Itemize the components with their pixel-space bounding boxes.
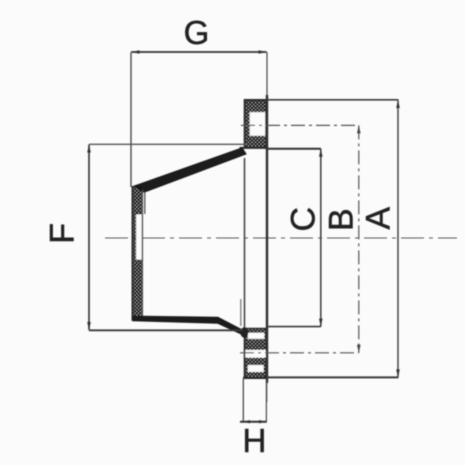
bolt circle line B top <box>241 124 359 126</box>
dimension line G <box>131 51 267 53</box>
bore inner faint line <box>240 299 242 326</box>
bolt circle line B bottom <box>240 352 359 354</box>
center hole left edge <box>135 214 137 261</box>
dimension line C <box>320 149 322 327</box>
dimension line F <box>88 145 90 331</box>
centerline <box>105 237 457 239</box>
center hole bottom edge <box>135 259 143 261</box>
extension line F top <box>89 143 246 145</box>
flange bottom-left edge <box>244 328 246 378</box>
flange ring top section (hatched) <box>244 100 267 148</box>
flange ring bottom section (hatched) <box>244 328 267 378</box>
dimension line B <box>358 125 360 352</box>
svg-text:B: B <box>323 208 361 231</box>
dimension line H <box>240 421 267 423</box>
flange top-left edge <box>244 100 246 148</box>
svg-text:G: G <box>184 14 210 51</box>
collar inner face line <box>142 190 144 317</box>
extension line A top <box>267 99 398 101</box>
bolt hole bottom upper white <box>248 333 264 339</box>
flange bottom edge <box>243 377 267 379</box>
center hole gap <box>136 214 143 261</box>
flange face line thick <box>266 95 268 383</box>
extension line C bottom <box>267 326 321 328</box>
svg-text:H: H <box>242 422 266 459</box>
collar to flange junction blob <box>240 327 248 337</box>
flange face line upper thin <box>266 52 268 99</box>
extension line A bottom <box>267 376 398 378</box>
collar end wall (hatched column) <box>132 186 142 321</box>
center hole right edge <box>141 214 143 261</box>
extension line C top <box>267 148 321 150</box>
collar outer face line <box>131 186 133 320</box>
arrow B top <box>357 125 361 133</box>
arrow F top <box>87 145 91 153</box>
bolt hole top <box>250 112 266 136</box>
arrow H left <box>243 420 250 423</box>
flange top section bottom edge <box>240 147 268 149</box>
arrow G left <box>132 50 140 54</box>
center hole top edge <box>135 213 143 215</box>
arrow A top <box>396 100 400 108</box>
svg-text:F: F <box>44 223 82 244</box>
arrow A bottom <box>396 369 400 377</box>
dimension line A <box>397 100 399 378</box>
inner bend edge <box>144 192 146 215</box>
flange face line lower thin <box>266 383 268 402</box>
arrow G right <box>259 50 267 54</box>
collar bottom band <box>132 316 247 338</box>
svg-text:C: C <box>285 207 323 232</box>
extension line G left <box>130 53 132 188</box>
bolt hole bottom middle white band <box>244 350 266 358</box>
flange bottom section top edge <box>244 328 267 330</box>
arrow F bottom <box>87 322 91 330</box>
arrow C bottom <box>319 319 323 327</box>
extension line F bottom <box>89 329 243 331</box>
arrow B bottom <box>357 345 361 353</box>
extension line H right <box>265 381 267 422</box>
collar taper band <box>133 147 247 193</box>
bolt hole bottom lower white <box>248 365 264 372</box>
extension line H left <box>242 379 244 422</box>
arrow H right <box>259 420 266 423</box>
flange top edge <box>244 99 267 101</box>
flange bore silhouette line <box>244 158 246 330</box>
arrow C top <box>319 149 323 157</box>
svg-text:A: A <box>360 207 398 230</box>
